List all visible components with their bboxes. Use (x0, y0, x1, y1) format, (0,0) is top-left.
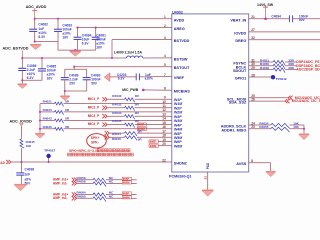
resistor R4065 (93, 197, 106, 202)
wire AREG net (78, 27, 172, 29)
resistor R4046 (125, 136, 137, 141)
resistor R4049 (273, 68, 285, 73)
svg-text:BSTVDD: BSTVDD (174, 39, 190, 43)
wire IOVDD row (249, 31, 320, 33)
svg-text:R4033: R4033 (43, 108, 52, 112)
capacitor C4082 (34, 19, 36, 29)
capacitor C4081 (95, 28, 97, 38)
capacitor C4080 (86, 69, 88, 77)
svg-text:25V: 25V (69, 81, 76, 85)
ground C4082 (30, 44, 41, 45)
svg-text:R4055: R4055 (259, 125, 268, 129)
wire L4000 to pin 4 (143, 57, 172, 59)
ground mid rail (70, 51, 81, 52)
svg-text:MIC1_P: MIC1_P (88, 97, 100, 101)
svg-text:6.3V: 6.3V (27, 76, 35, 80)
annotation circle SPK (87, 134, 107, 148)
ground PAD (202, 190, 213, 191)
resistor R4044 (125, 132, 137, 137)
svg-text:R4032: R4032 (112, 102, 121, 106)
node rail-gnd (74, 49, 76, 51)
node AREG-C4084 (76, 27, 78, 29)
capacitor C4083 (57, 19, 59, 29)
wire MIC_PWB to pin 8 (143, 89, 172, 91)
svg-text:ADC_AVDD: ADC_AVDD (26, 5, 47, 9)
svg-text:R4031: R4031 (43, 100, 52, 104)
wire DSP2ADC_BCLK row (249, 65, 273, 67)
svg-text:R4065: R4065 (77, 194, 86, 198)
wire IOVDD pullup (20, 126, 22, 139)
wire pullup gnd column (303, 125, 305, 133)
node gnd rail (64, 90, 66, 92)
svg-text:6.3V: 6.3V (118, 76, 126, 80)
wire BSTVDD rail (22, 57, 126, 59)
svg-text:AREG: AREG (174, 27, 185, 31)
resistor R4033 (40, 111, 55, 113)
annotation red text line 2 (68, 153, 134, 156)
svg-text:VBAT_IN: VBAT_IN (230, 18, 246, 22)
svg-text:VREF: VREF (174, 76, 185, 80)
capacitor C4086 (21, 58, 23, 68)
net label IN6P boxed (149, 140, 158, 143)
wire riser to pin 3 (111, 40, 113, 58)
svg-text:7: 7 (164, 73, 166, 77)
svg-text:16V: 16V (62, 35, 69, 39)
svg-text:33R: 33R (288, 66, 294, 70)
ground ADDR pullups (299, 133, 309, 134)
wire DREG row (249, 39, 320, 41)
svg-text:PAD: PAD (206, 162, 210, 169)
svg-text:R4058: R4058 (77, 180, 86, 184)
wire VBAT_IN row (249, 18, 289, 20)
wire AVSS row (249, 162, 271, 164)
svg-text:ADC_BSTVDD: ADC_BSTVDD (3, 46, 29, 50)
net label IN4P boxed (137, 123, 146, 126)
svg-text:GPIO1: GPIO1 (235, 77, 247, 81)
wire C4082 gnd to C4083 leg (35, 41, 58, 43)
svg-text:R4043: R4043 (43, 116, 52, 120)
resistor R4058 (93, 182, 106, 187)
svg-text:±5%: ±5% (25, 177, 32, 181)
svg-text:R4030: R4030 (112, 94, 121, 98)
node C4086-C4085 gnd join (21, 79, 23, 81)
svg-text:33: 33 (203, 176, 207, 180)
capacitor C4098 (20, 162, 22, 173)
node bus-C4083 (57, 18, 59, 20)
svg-text:SPK-: SPK- (91, 141, 99, 145)
svg-text:50V: 50V (91, 81, 98, 85)
svg-text:10K: 10K (293, 125, 299, 129)
ground C4086 (18, 83, 27, 84)
capacitor C4094 (288, 15, 290, 22)
ground strap column (35, 133, 44, 134)
svg-text:16V: 16V (47, 77, 54, 81)
svg-text:IN6M: IN6M (150, 144, 157, 148)
net label MCU2ADC_I2C_SDA (285, 99, 289, 103)
svg-text:DREG: DREG (235, 39, 246, 43)
svg-text:BSTOUT: BSTOUT (174, 66, 190, 70)
resistor R4032 (125, 106, 135, 111)
ground C4098 (14, 184, 26, 185)
svg-text:MIC4_P: MIC4_P (88, 122, 100, 126)
svg-text:NC: NC (109, 194, 114, 198)
svg-text:L4000 2.2uH 1.5A: L4000 2.2uH 1.5A (114, 51, 142, 55)
resistor R4051 (273, 60, 285, 65)
svg-text:C4098: C4098 (25, 167, 35, 171)
node rail-C4086 (21, 57, 23, 59)
wire SPK+ row (105, 131, 110, 135)
node pullup-SHDNZ (20, 161, 22, 163)
svg-text:C4094: C4094 (271, 14, 281, 18)
wire MIC2_P row (107, 107, 124, 109)
svg-text:MIC3_P: MIC3_P (88, 114, 100, 118)
svg-text:SDOUT: SDOUT (233, 69, 247, 73)
wire VREF row (110, 76, 136, 78)
svg-text:R4035: R4035 (112, 119, 121, 123)
wire PAD stub (207, 172, 209, 190)
net label IN6M boxed (149, 144, 158, 147)
svg-text:PCM6260-Q1: PCM6260-Q1 (169, 174, 192, 178)
net label IN5P boxed (122, 177, 131, 180)
svg-text:_AD: _AD (0, 161, 6, 165)
wire AMP_in1- row (76, 182, 93, 184)
svg-text:±10%: ±10% (145, 76, 153, 80)
svg-text:MCU2ADC_I2C_SDA: MCU2ADC_I2C_SDA (292, 99, 320, 103)
test point TP4017 (48, 158, 50, 163)
resistor R4054 (271, 123, 290, 128)
resistor R4043 (40, 119, 55, 121)
IC U4002 PCM6260-Q1 body (172, 14, 249, 172)
node rail-C4085 (41, 57, 43, 59)
wire SPK- row (105, 135, 110, 139)
svg-text:IN6M: IN6M (123, 195, 130, 199)
svg-text:16V: 16V (96, 45, 103, 49)
ground AVSS (266, 171, 276, 172)
svg-text:IN5M: IN5M (123, 181, 130, 185)
svg-text:IN6M: IN6M (174, 144, 182, 148)
svg-text:SPK+: SPK+ (91, 136, 100, 140)
node strap junction (39, 128, 41, 130)
wire GPIO1 row (249, 76, 271, 78)
resistor R4056 (93, 178, 106, 183)
svg-text:SDA_SSZ: SDA_SSZ (229, 101, 247, 105)
ground analog rail (60, 95, 69, 96)
capacitor C4084 (77, 28, 79, 38)
node BSTOUT riser (73, 66, 75, 68)
resistor R4035 (125, 123, 135, 128)
capacitor C4203 (135, 74, 137, 81)
capacitor C4089 (64, 69, 66, 77)
svg-text:IOVDD: IOVDD (234, 31, 246, 35)
wire ADDR row R4055 (249, 128, 271, 130)
node MIC_PWB (142, 89, 145, 92)
svg-text:AMP_in2-: AMP_in2- (53, 196, 68, 200)
node VBAT power (264, 17, 267, 20)
svg-text:R4049: R4049 (260, 66, 269, 70)
resistor R4030 (125, 98, 135, 103)
svg-text:ADDR1_MISO: ADDR1_MISO (221, 128, 246, 132)
wire MIC4_P row (107, 124, 124, 126)
wire strap ground column (39, 104, 41, 133)
wire AVDD bus (35, 18, 172, 20)
wire DSP2ADC_FSYNC row (249, 61, 273, 63)
wire ground rail of C4083/C4084/C4081 (58, 49, 96, 51)
svg-text:R4044: R4044 (112, 132, 121, 136)
svg-text:50V: 50V (299, 18, 306, 22)
svg-text:MICBIAS: MICBIAS (174, 90, 190, 94)
wire AMP_in2- row (76, 197, 93, 199)
wire cap subrail (65, 68, 87, 70)
resistor R4031 (40, 103, 55, 105)
svg-text:R4046: R4046 (112, 137, 121, 141)
capacitor C4085 (41, 58, 43, 69)
node strap junction (39, 111, 41, 113)
port arrow VREF feed (104, 73, 110, 82)
node rail-pin3 riser (111, 57, 113, 59)
resistor R4034 (125, 115, 135, 120)
wire SCL_MOSI row (249, 97, 288, 99)
node addr gnd (303, 128, 305, 130)
wire MIC3_P row (107, 115, 124, 117)
net label IN6P boxed (122, 192, 131, 195)
net label MCU2ADC_I2C_SCL (288, 96, 292, 100)
net label IN6M boxed (122, 196, 131, 199)
resistor R4045 pullup (20, 139, 24, 148)
svg-text:AVSS: AVSS (236, 162, 247, 166)
wire AMP_in2+ row (76, 194, 93, 196)
svg-text:BSTSW: BSTSW (174, 57, 188, 61)
svg-text:TP4012: TP4012 (276, 77, 287, 81)
svg-text:R4034: R4034 (112, 111, 121, 115)
svg-text:SPK+/SPK-:0~3.3V: SPK+/SPK-:0~3.3V (69, 149, 100, 153)
node C4082 gnd (34, 41, 36, 43)
wire ADDR row R4054 (249, 124, 271, 126)
svg-text:R4036: R4036 (43, 125, 52, 129)
wire SHDNZ row (11, 161, 172, 163)
net label IN5M boxed (122, 181, 131, 184)
resistor R4055 (271, 127, 290, 132)
net label IN4M boxed (137, 127, 146, 130)
wire AMP_in1+ row (76, 179, 93, 181)
wire ADC2DSP_SDATA row (249, 69, 273, 71)
node TP4017-SHDNZ (48, 161, 50, 163)
svg-text:AVDD: AVDD (174, 18, 185, 22)
svg-text:1nF: 1nF (25, 172, 31, 176)
svg-text:6.3V: 6.3V (38, 35, 46, 39)
resistor R4050 (273, 64, 285, 69)
svg-text:AMP_in1-: AMP_in1- (53, 181, 68, 185)
svg-text:U4002: U4002 (172, 10, 183, 14)
svg-text:ADC2DSP_SDATA: ADC2DSP_SDATA (296, 68, 320, 72)
wire analog gnd rail (65, 90, 87, 92)
svg-text:MIC2_P: MIC2_P (88, 105, 100, 109)
node bus-C4082 (34, 18, 36, 20)
svg-text:10K: 10K (26, 144, 32, 148)
wire BSTOUT net (74, 66, 172, 68)
svg-text:6.3V: 6.3V (82, 41, 90, 45)
svg-text:ADC_IOVDD: ADC_IOVDD (10, 119, 33, 123)
resistor R4036 (40, 128, 55, 130)
svg-text:SHDNZ: SHDNZ (174, 162, 188, 166)
wire MIC1_P row (107, 98, 124, 100)
node AREG-C4081 (95, 27, 97, 29)
svg-text:TP4017: TP4017 (44, 149, 55, 153)
node strap junction (39, 119, 41, 121)
test point TP4012 (271, 75, 275, 79)
svg-text:MIC_PWB: MIC_PWB (122, 88, 139, 92)
svg-text:NC: NC (109, 180, 114, 184)
wire SDA_SSZ row (249, 100, 285, 102)
resistor R4064 (93, 193, 106, 198)
